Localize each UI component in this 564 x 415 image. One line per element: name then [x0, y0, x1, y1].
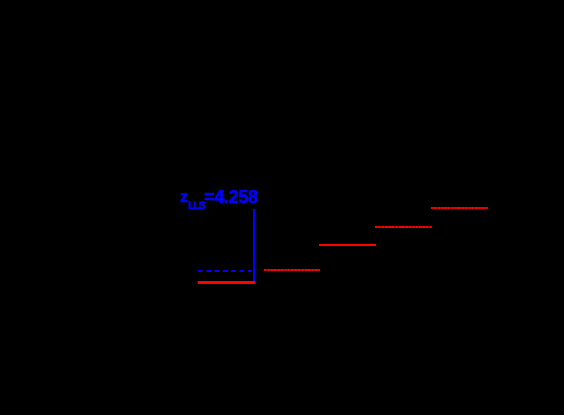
red segment 3 — [319, 244, 376, 246]
red segment 5 (highest step) — [431, 207, 487, 209]
vertical blue line (LLS break at z=4.258) — [253, 209, 256, 281]
red segment 4 — [375, 226, 432, 228]
label =4.258 — [204, 188, 258, 206]
dashed blue line (extrapolated flux level) — [198, 270, 252, 272]
red segment 2 — [264, 269, 320, 271]
label subscript LLS — [188, 201, 204, 212]
label z (of z_LLS=4.258) — [180, 190, 188, 206]
red segment 1 (lowest step) — [198, 281, 254, 284]
